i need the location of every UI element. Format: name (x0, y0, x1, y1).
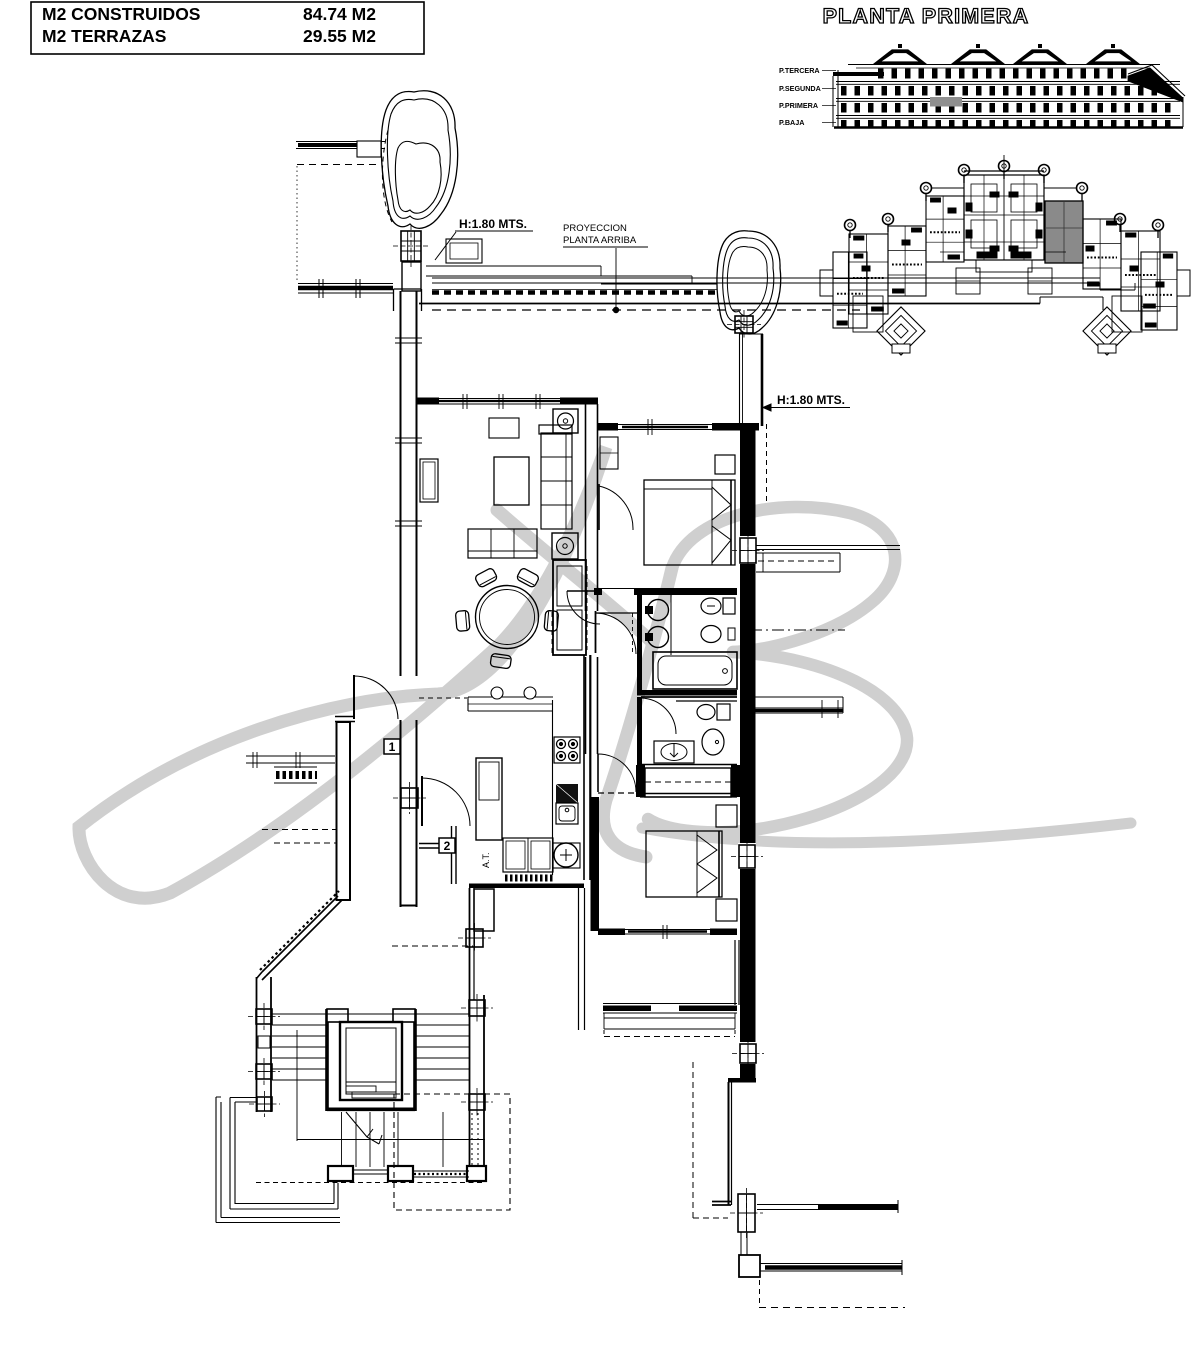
svg-text:P.PRIMERA: P.PRIMERA (779, 101, 818, 110)
svg-text:PROYECCION: PROYECCION (563, 223, 627, 234)
svg-text:PLANTA PRIMERA: PLANTA PRIMERA (823, 4, 1030, 28)
svg-text:H:1.80 MTS.: H:1.80 MTS. (777, 393, 845, 407)
svg-text:84.74 M2: 84.74 M2 (303, 4, 376, 24)
svg-text:2: 2 (444, 839, 451, 853)
svg-text:PLANTA ARRIBA: PLANTA ARRIBA (563, 235, 637, 246)
svg-text:29.55 M2: 29.55 M2 (303, 26, 376, 46)
svg-text:P.BAJA: P.BAJA (779, 118, 804, 127)
svg-text:H:1.80 MTS.: H:1.80 MTS. (459, 217, 527, 231)
svg-text:A.T.: A.T. (481, 852, 491, 868)
svg-text:M2 TERRAZAS: M2 TERRAZAS (42, 26, 166, 46)
svg-text:P.SEGUNDA: P.SEGUNDA (779, 84, 821, 93)
svg-text:M2 CONSTRUIDOS: M2 CONSTRUIDOS (42, 4, 200, 24)
svg-text:1: 1 (389, 740, 396, 754)
svg-text:P.TERCERA: P.TERCERA (779, 66, 820, 75)
